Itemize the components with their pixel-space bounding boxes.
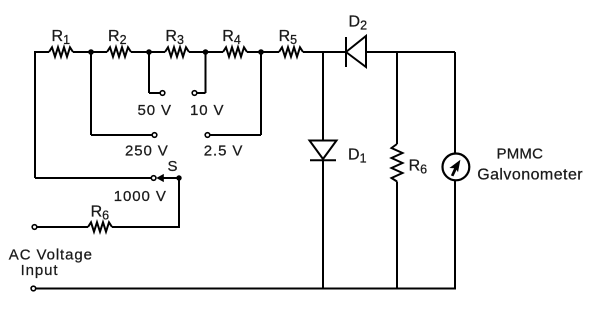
svg-text:1000 V: 1000 V [114, 188, 167, 205]
svg-text:Galvonometer: Galvonometer [477, 167, 583, 184]
svg-text:PMMC: PMMC [497, 146, 544, 163]
svg-text:250 V: 250 V [125, 142, 169, 159]
svg-text:AC Voltage: AC Voltage [9, 247, 93, 264]
svg-text:10 V: 10 V [190, 102, 224, 119]
svg-text:S: S [168, 158, 179, 175]
svg-text:50 V: 50 V [138, 102, 172, 119]
svg-text:Input: Input [21, 262, 59, 279]
svg-text:2.5 V: 2.5 V [204, 142, 244, 159]
